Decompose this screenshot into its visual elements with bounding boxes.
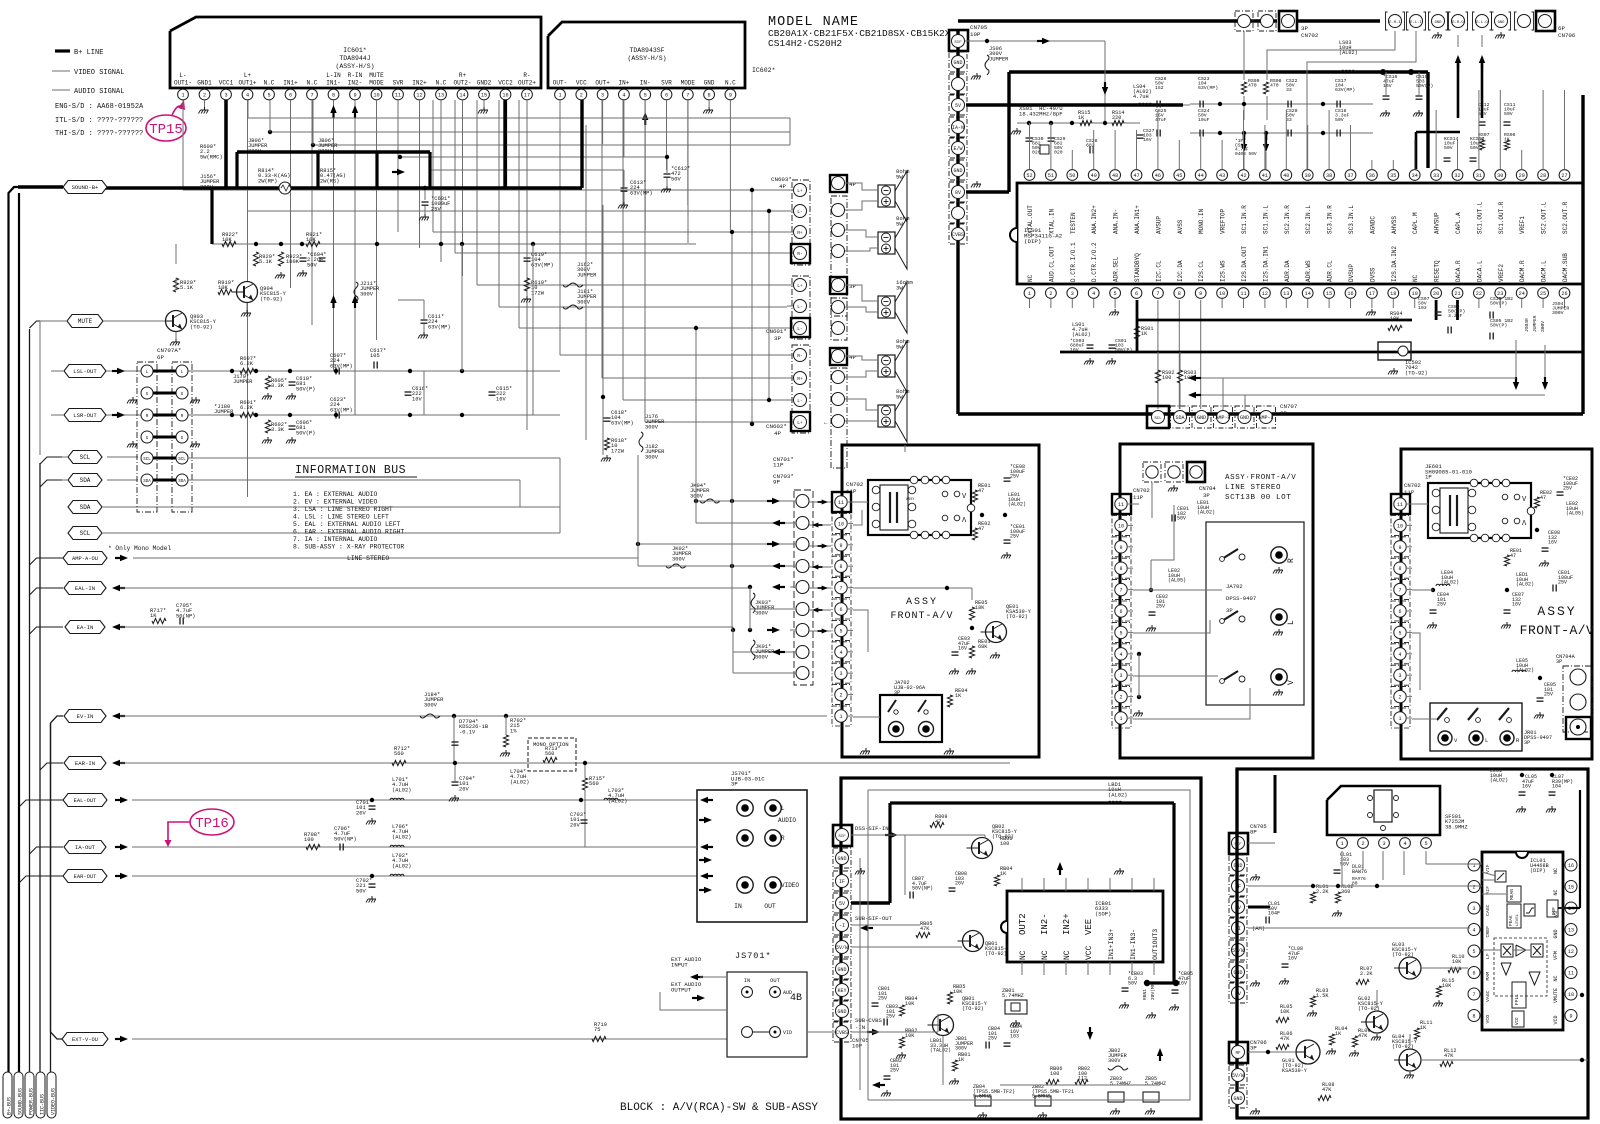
svg-text:20: 20 [1433,291,1439,297]
svg-text:GND1: GND1 [197,80,212,87]
svg-text:4: 4 [1472,928,1475,934]
svg-text:NC: NC [1041,950,1050,960]
svg-text:VIDEO SIGNAL: VIDEO SIGNAL [74,69,124,77]
svg-text:LSR-OUT: LSR-OUT [73,412,97,419]
svg-text:10K: 10K [1452,959,1462,965]
svg-text:VCO: VCO [1516,1017,1520,1025]
svg-text:3: 3 [601,92,604,98]
svg-text:63V(MP): 63V(MP) [531,262,554,268]
svg-text:4P: 4P [779,183,786,190]
svg-text:46: 46 [1155,173,1161,179]
svg-text:N.C: N.C [264,80,275,87]
svg-text:39: 39 [1305,173,1311,179]
svg-text:-0.1V: -0.1V [459,729,476,735]
svg-text:I2S.CL: I2S.CL [1198,260,1205,282]
svg-text:26V: 26V [459,786,469,792]
svg-text:26: 26 [1561,291,1567,297]
svg-text:NC: NC [1553,975,1559,981]
svg-text:VCC1: VCC1 [219,80,234,87]
svg-text:CN702: CN702 [1301,32,1319,39]
svg-text:2.2K: 2.2K [1360,971,1373,977]
svg-text:(TO-92): (TO-92) [1405,370,1428,376]
svg-text:4.7uH: 4.7uH [1133,94,1149,100]
svg-text:25V: 25V [1544,692,1553,698]
svg-text:(AL05): (AL05) [1566,511,1584,517]
svg-text:IN1+: IN1+ [283,80,298,87]
svg-text:SC1.IN.R: SC1.IN.R [1241,205,1248,234]
svg-text:FPLL: FPLL [1514,994,1520,1005]
svg-text:SVR: SVR [661,80,672,87]
svg-text:10: 10 [1219,291,1225,297]
svg-text:VCD: VCD [1553,1015,1559,1024]
svg-text:100: 100 [1050,1071,1059,1077]
svg-text:SCL: SCL [80,454,91,461]
svg-text:SOUND-BUS: SOUND-BUS [18,1088,24,1115]
svg-text:NC: NC [1027,274,1034,282]
svg-text:16: 16 [1347,291,1353,297]
svg-text:47K: 47K [1280,1036,1290,1042]
svg-text:16V: 16V [958,646,967,652]
svg-text:DACM.L: DACM.L [1541,260,1548,282]
svg-text:4P: 4P [774,430,781,437]
svg-text:(TO-92): (TO-92) [260,296,283,302]
svg-text:8V: 8V [955,190,961,196]
svg-text:3: 3 [1472,906,1475,912]
svg-text:300V: 300V [424,702,438,708]
svg-text:L-: L- [797,398,803,404]
svg-text:63V(MP): 63V(MP) [330,363,353,369]
svg-text:AVSUP: AVSUP [1155,216,1162,234]
svg-text:VCO: VCO [1485,1015,1491,1024]
svg-text:3P: 3P [1301,25,1308,32]
svg-text:26V: 26V [955,881,964,887]
svg-text:(ASSY-H/S): (ASSY-H/S) [627,55,666,62]
svg-text:SC1.OUT.L: SC1.OUT.L [1476,201,1483,234]
svg-text:ADR.WS: ADR.WS [1305,260,1312,282]
svg-text:300V: 300V [755,654,769,660]
svg-text:L+: L+ [797,420,803,426]
svg-text:(AL02): (AL02) [392,863,411,869]
svg-text:1K: 1K [958,1057,965,1063]
svg-text:3P: 3P [1556,659,1562,665]
svg-text:MONO.IN: MONO.IN [1198,208,1205,234]
svg-text:14: 14 [459,92,465,98]
svg-text:BLOCK : A/V(RCA)-SW & SUB-ASSY: BLOCK : A/V(RCA)-SW & SUB-ASSY [620,1102,818,1114]
svg-text:ANA.IN1+: ANA.IN1+ [1134,205,1141,234]
svg-text:1P: 1P [1425,474,1432,481]
svg-text:10K: 10K [1280,1009,1290,1015]
svg-text:4P: 4P [849,354,856,361]
svg-text:(TO-92): (TO-92) [962,1006,984,1012]
svg-text:50V: 50V [1504,111,1513,117]
svg-text:10K: 10K [1442,983,1452,989]
svg-text:CN602*: CN602* [766,423,787,430]
svg-text:SC1.OUT.R: SC1.OUT.R [1498,201,1505,234]
svg-text:(ALO2): (ALO2) [1490,778,1508,784]
svg-text:18.432MHz/8pF: 18.432MHz/8pF [1019,110,1063,117]
svg-text:SOUND-B+: SOUND-B+ [72,184,99,191]
svg-text:10: 10 [1397,523,1403,529]
svg-text:75: 75 [594,1027,600,1033]
svg-text:22: 22 [1476,291,1482,297]
svg-text:2: 2 [1049,291,1052,297]
svg-text:103: 103 [1010,1034,1019,1040]
svg-text:←: ← [824,419,828,426]
svg-text:3P: 3P [774,335,781,342]
svg-text:GND: GND [1498,21,1506,25]
svg-text:IN-: IN- [640,80,651,87]
svg-text:1: 1 [1028,291,1031,297]
svg-text:ADR.CL: ADR.CL [1327,260,1334,282]
svg-text:3P: 3P [1226,607,1233,614]
svg-text:INPUT: INPUT [671,961,688,968]
svg-text:63V(MP): 63V(MP) [1198,85,1218,91]
svg-text:7: 7 [310,92,313,98]
svg-text:47: 47 [1133,173,1139,179]
svg-text:52: 52 [1026,173,1032,179]
svg-text:50V(P): 50V(P) [1490,301,1507,307]
svg-text:SC2.OUT.R: SC2.OUT.R [1562,201,1569,234]
svg-text:50V(P): 50V(P) [1115,347,1132,353]
svg-text:12: 12 [416,92,422,98]
svg-text:10K: 10K [905,1033,915,1039]
svg-text:300V: 300V [645,454,659,460]
svg-text:6: 6 [289,92,292,98]
svg-text:MODE: MODE [369,80,384,87]
svg-text:12: 12 [1568,949,1574,955]
svg-text:SC1.IN.L: SC1.IN.L [1262,205,1269,234]
svg-text:5. EAL : EXTERNAL AUDIO LEFT: 5. EAL : EXTERNAL AUDIO LEFT [293,521,401,528]
svg-text:SCL: SCL [178,458,186,462]
svg-text:(AL02): (AL02) [392,787,411,793]
svg-text:N.C: N.C [307,80,318,87]
svg-text:2: 2 [580,92,583,98]
svg-text:50V(P): 50V(P) [296,430,315,436]
svg-text:(SOP): (SOP) [1095,911,1111,917]
svg-text:47K: 47K [1322,1087,1332,1093]
svg-text:(ASSY-H/S): (ASSY-H/S) [335,63,374,70]
svg-text:(AL02): (AL02) [392,834,411,840]
svg-text:(AL02): (AL02) [1072,332,1091,338]
svg-text:2W(RS): 2W(RS) [320,178,339,184]
svg-text:18K: 18K [975,605,985,611]
svg-text:7: 7 [686,92,689,98]
svg-text:MEAN: MEAN [1509,889,1515,900]
svg-text:LF: LF [1485,953,1491,959]
svg-text:LINE STEREO: LINE STEREO [347,555,389,562]
svg-text:3P: 3P [731,781,738,788]
svg-text:100: 100 [1162,375,1171,381]
svg-text:1%: 1% [510,728,517,734]
svg-text:OUT+: OUT+ [595,80,610,87]
svg-text:8: 8 [839,564,842,570]
svg-text:SC3.IN.L: SC3.IN.L [1348,205,1355,234]
svg-text:NC: NC [1412,274,1419,282]
svg-text:JUMPER: JUMPER [577,272,597,278]
svg-text:3: 3 [1398,673,1401,679]
svg-text:14: 14 [1305,291,1311,297]
svg-text:R-: R- [523,72,530,79]
svg-text:JUMPER: JUMPER [1532,315,1538,332]
svg-text:1.5K: 1.5K [1316,993,1329,999]
svg-text:5: 5 [1424,841,1427,847]
svg-text:25V: 25V [890,1068,899,1074]
svg-text:L-IN: L-IN [326,72,341,79]
svg-text:17: 17 [1369,291,1375,297]
svg-text:5V/W: 5V/W [1232,1073,1244,1079]
svg-text:9: 9 [353,92,356,98]
svg-text:AMP-A-OU: AMP-A-OU [72,556,98,562]
svg-text:POWER-BUS: POWER-BUS [29,1088,35,1115]
svg-text:(AL02): (AL02) [1008,502,1026,508]
svg-text:DACA.R: DACA.R [1455,260,1462,282]
svg-text:E-R-I: E-R-I [1389,21,1400,25]
svg-text:B+ LINE: B+ LINE [74,49,103,57]
svg-text:AHVSS: AHVSS [1391,216,1398,234]
svg-text:300V: 300V [1540,321,1546,332]
svg-text:NC: NC [1553,868,1559,874]
svg-text:TDA8944J: TDA8944J [339,55,370,62]
svg-text:2W(RF): 2W(RF) [258,178,277,184]
svg-text:50V: 50V [356,888,366,894]
svg-text:IA-OUT: IA-OUT [75,844,96,851]
svg-text:1K: 1K [1335,1031,1342,1037]
svg-text:45: 45 [1176,173,1182,179]
svg-text:9: 9 [729,92,732,98]
svg-text:CVBS: CVBS [952,232,964,238]
svg-text:18: 18 [1390,291,1396,297]
svg-text:RBN1: RBN1 [1142,989,1148,1000]
svg-text:13: 13 [1283,291,1289,297]
svg-text:IC601*: IC601* [343,47,367,54]
svg-text:5: 5 [644,92,647,98]
svg-text:50V: 50V [1128,981,1137,987]
svg-text:3: 3 [224,92,227,98]
svg-text:SVR: SVR [393,80,404,87]
svg-text:R-: R- [797,353,803,359]
svg-text:49: 49 [1091,173,1097,179]
svg-text:7: 7 [1472,992,1475,998]
svg-text:6: 6 [1119,609,1122,615]
svg-text:8: 8 [1119,566,1122,572]
svg-text:2: 2 [203,92,206,98]
svg-text:13: 13 [1568,928,1574,934]
svg-text:8: 8 [708,92,711,98]
svg-text:REF: REF [1552,907,1557,915]
svg-text:50: 50 [1069,173,1075,179]
svg-text:25V: 25V [1010,534,1019,540]
svg-text:9: 9 [1569,1014,1572,1020]
svg-text:MUTE: MUTE [78,318,93,325]
svg-text:CVBS: CVBS [836,1030,848,1036]
svg-text:CN603*: CN603* [771,176,792,183]
svg-text:300V: 300V [645,424,659,430]
svg-text:300V: 300V [755,610,769,616]
svg-text:47K: 47K [1444,1053,1454,1059]
svg-text:8: 8 [1178,291,1181,297]
svg-text:DACA.L: DACA.L [1476,260,1483,282]
svg-text:300V: 300V [577,299,591,305]
svg-text:L-: L- [797,326,803,332]
svg-text:3: 3 [1071,291,1074,297]
svg-text:JUMPER: JUMPER [989,56,1009,62]
svg-text:SDA: SDA [143,480,151,484]
svg-text:26V: 26V [570,822,580,828]
svg-text:CN706: CN706 [1558,32,1576,39]
svg-text:OUT2+: OUT2+ [518,80,536,87]
svg-text:-I: -I [839,923,845,929]
svg-text:10P: 10P [852,1042,863,1049]
svg-text:23: 23 [1497,291,1503,297]
svg-text:INFORMATION BUS: INFORMATION BUS [295,464,406,477]
svg-text:1: 1 [1398,716,1401,722]
svg-text:25V: 25V [1563,486,1572,492]
svg-text:020: 020 [1032,150,1041,156]
svg-text:AMP-L: AMP-L [1258,415,1273,421]
svg-text:IN2+: IN2+ [412,80,427,87]
svg-text:CN707A*: CN707A* [157,347,181,354]
svg-text:3: 3 [1119,673,1122,679]
svg-text:16V: 16V [1522,784,1531,790]
svg-text:IN1-IN3-: IN1-IN3- [1130,929,1137,960]
svg-text:2: 2 [1472,885,1475,891]
svg-text:220: 220 [1112,115,1121,121]
svg-text:1: 1 [1340,841,1343,847]
svg-text:51: 51 [1048,173,1054,179]
svg-text:3P: 3P [1250,1044,1257,1051]
svg-text:105: 105 [370,353,380,359]
svg-text:(AL02): (AL02) [1197,510,1215,516]
svg-text:8: 8 [332,92,335,98]
svg-text:100: 100 [304,837,314,843]
svg-text:3P: 3P [1524,740,1530,746]
svg-text:IN2-: IN2- [348,80,362,87]
svg-text:OUT-: OUT- [553,80,567,87]
svg-text:SDA: SDA [178,480,186,484]
svg-text:E-L-I: E-L-I [1410,21,1421,25]
svg-text:VCC2: VCC2 [498,80,513,87]
svg-text:6P: 6P [157,354,164,361]
svg-text:I2S.DA.OUT: I2S.DA.OUT [1241,246,1248,282]
svg-text:IF: IF [839,879,845,885]
svg-text:10P: 10P [970,31,981,38]
svg-text:35: 35 [1390,173,1396,179]
svg-text:1: 1 [181,92,184,98]
svg-text:3. LSA : LINE STEREO RIGHT: 3. LSA : LINE STEREO RIGHT [293,506,393,513]
svg-text:20V(MP: 20V(MP [1150,983,1156,1000]
svg-text:16V: 16V [1143,137,1152,143]
svg-text:(AL02): (AL02) [1108,792,1127,798]
svg-text:JA702: JA702 [1226,583,1243,590]
svg-text:16: 16 [502,92,508,98]
svg-text:AUDIO: AUDIO [778,817,796,824]
svg-text:50V: 50V [1335,117,1344,123]
svg-text:38: 38 [1326,173,1332,179]
svg-text:OUT1OUT3: OUT1OUT3 [1152,929,1159,960]
svg-text:SIF: SIF [838,835,846,839]
svg-text:10: 10 [838,521,844,527]
svg-text:RF: RF [1235,1052,1241,1056]
svg-text:32: 32 [1454,173,1460,179]
svg-text:JUMPER: JUMPER [233,379,253,385]
svg-text:GND: GND [953,60,962,66]
svg-text:7: 7 [1398,588,1401,594]
svg-text:MAM: MAM [1485,972,1491,981]
svg-text:IIC-BUS: IIC-BUS [40,1094,46,1115]
svg-text:SIF: SIF [954,41,962,45]
svg-text:SC3.IN.R: SC3.IN.R [1327,205,1334,234]
svg-text:IN: IN [744,978,750,984]
svg-text:ENG-S/D : AA68-01952A: ENG-S/D : AA68-01952A [55,103,144,111]
svg-text:(TO-92): (TO-92) [1392,1044,1414,1050]
svg-text:VREF1: VREF1 [1519,216,1526,234]
svg-text:1K: 1K [150,613,157,619]
svg-text:47: 47 [1510,553,1516,559]
svg-text:GND2: GND2 [477,80,492,87]
svg-text:560: 560 [545,751,554,757]
svg-text:(AL02): (AL02) [510,779,529,785]
svg-text:CN707: CN707 [1280,403,1298,410]
svg-text:3: 3 [839,671,842,677]
svg-text:CAPL.M: CAPL.M [1412,212,1419,234]
svg-text:KEY: KEY [837,988,846,994]
svg-text:6.2K: 6.2K [240,361,254,367]
svg-text:(AL02): (AL02) [1516,582,1534,588]
svg-text:R: R [781,835,785,842]
svg-text:IC602*: IC602* [752,67,776,74]
svg-text:10K: 10K [222,237,232,243]
svg-text:B+-BUS: B+-BUS [7,1097,13,1115]
svg-text:10: 10 [1118,523,1124,529]
svg-text:SCL: SCL [143,458,151,462]
svg-text:EAL-IN: EAL-IN [75,585,95,592]
svg-text:12: 12 [1262,291,1268,297]
svg-text:ADR.DA: ADR.DA [1284,260,1291,282]
svg-text:E-R-O: E-R-O [1452,21,1464,25]
svg-text:NC: NC [1019,950,1028,960]
svg-text:(TO-92): (TO-92) [1006,614,1028,620]
svg-text:GND: GND [1233,1096,1242,1102]
svg-text:4P: 4P [849,181,856,188]
svg-text:RESETQ: RESETQ [1434,260,1441,282]
svg-text:4: 4 [622,92,625,98]
svg-text:25: 25 [1540,291,1546,297]
svg-text:SC2.OUT.L: SC2.OUT.L [1541,201,1548,234]
svg-text:11: 11 [1118,502,1124,508]
svg-text:R+: R+ [459,72,467,79]
svg-text:VCC: VCC [576,80,587,87]
svg-text:5: 5 [1472,949,1475,955]
svg-text:FRONT-A/V: FRONT-A/V [1520,623,1595,638]
svg-text:38.9MHZ: 38.9MHZ [1445,824,1468,830]
svg-text:CN702: CN702 [1133,487,1150,494]
svg-text:103: 103 [1418,305,1427,311]
svg-text:BAW76: BAW76 [1352,869,1367,875]
svg-text:1. EA : EXTERNAL AUDIO: 1. EA : EXTERNAL AUDIO [293,491,378,498]
svg-text:VID: VID [783,1030,792,1036]
svg-text:63V(MP): 63V(MP) [428,324,451,330]
svg-text:3P: 3P [849,283,856,290]
svg-text:CN704: CN704 [1199,485,1216,492]
svg-text:IN+: IN+ [618,80,629,87]
svg-text:9: 9 [1199,291,1202,297]
svg-text:3.3K: 3.3K [271,427,285,433]
svg-text:50V(NP): 50V(NP) [334,836,357,842]
svg-text:16V: 16V [1178,981,1187,987]
svg-text:I2S.WS: I2S.WS [1220,260,1227,282]
svg-text:10K: 10K [953,989,963,995]
svg-text:11: 11 [1240,291,1246,297]
